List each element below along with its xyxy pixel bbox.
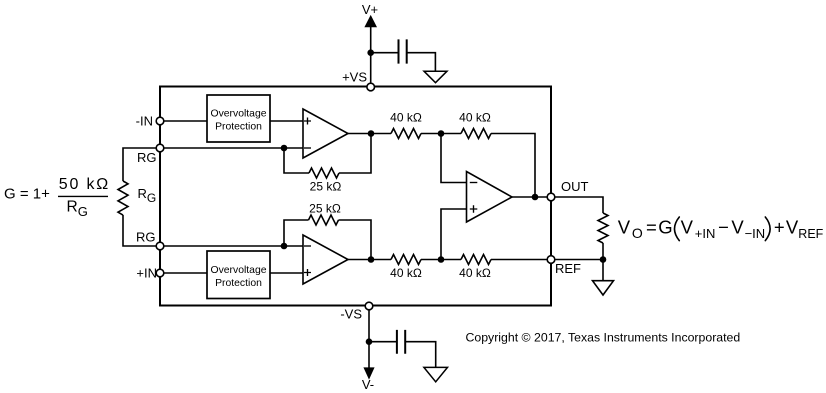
svg-text:REF: REF bbox=[555, 261, 581, 276]
svg-text:Overvoltage: Overvoltage bbox=[210, 265, 266, 276]
svg-text:G = 1+: G = 1+ bbox=[4, 186, 50, 203]
svg-text:40 kΩ: 40 kΩ bbox=[390, 266, 422, 280]
svg-text:RG: RG bbox=[138, 186, 157, 205]
svg-text:V: V bbox=[731, 217, 744, 238]
svg-text:REF: REF bbox=[798, 227, 823, 241]
svg-text:V: V bbox=[681, 217, 694, 238]
svg-text:+VS: +VS bbox=[342, 70, 367, 85]
svg-text:V: V bbox=[786, 217, 799, 238]
svg-text:RG: RG bbox=[136, 230, 156, 245]
svg-text:RG: RG bbox=[67, 199, 88, 220]
svg-text:OUT: OUT bbox=[561, 179, 589, 194]
svg-text:RG: RG bbox=[137, 150, 157, 165]
svg-text:−: − bbox=[718, 217, 729, 238]
svg-text:50 kΩ: 50 kΩ bbox=[59, 176, 110, 193]
svg-text:Protection: Protection bbox=[215, 278, 262, 289]
svg-text:-IN: -IN bbox=[136, 114, 153, 129]
svg-text:Overvoltage: Overvoltage bbox=[210, 109, 266, 120]
svg-text:-VS: -VS bbox=[340, 306, 362, 321]
svg-text:Protection: Protection bbox=[215, 121, 262, 132]
svg-text:Copyright © 2017, Texas Instru: Copyright © 2017, Texas Instruments Inco… bbox=[466, 331, 741, 345]
svg-text:40 kΩ: 40 kΩ bbox=[390, 111, 422, 125]
svg-text:40 kΩ: 40 kΩ bbox=[459, 266, 491, 280]
svg-text:25 kΩ: 25 kΩ bbox=[309, 201, 341, 215]
svg-text:V+: V+ bbox=[362, 2, 378, 17]
svg-text:−IN: −IN bbox=[745, 226, 766, 241]
svg-text:V-: V- bbox=[362, 377, 374, 392]
svg-text:O: O bbox=[632, 225, 643, 241]
svg-text:=: = bbox=[646, 217, 657, 238]
svg-text:+: + bbox=[774, 217, 785, 238]
svg-text:+IN: +IN bbox=[695, 226, 716, 241]
svg-text:V: V bbox=[618, 217, 631, 238]
svg-text:25 kΩ: 25 kΩ bbox=[310, 180, 342, 194]
svg-text:+IN: +IN bbox=[136, 266, 157, 281]
svg-text:40 kΩ: 40 kΩ bbox=[459, 111, 491, 125]
svg-text:G: G bbox=[658, 217, 672, 238]
